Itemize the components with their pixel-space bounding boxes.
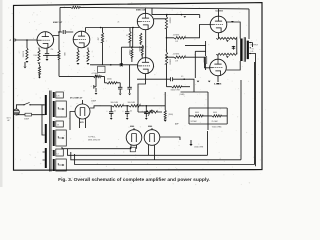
svg-text:250000: 250000 xyxy=(138,46,140,51)
svg-text:.25 MEG: .25 MEG xyxy=(173,54,180,56)
svg-text:6-6V6S: 6-6V6S xyxy=(216,11,224,13)
svg-text:6.3V: 6.3V xyxy=(57,95,60,97)
svg-text:6SN7-GT: 6SN7-GT xyxy=(53,22,63,24)
svg-text:(OHM): (OHM) xyxy=(180,94,185,96)
svg-text:6.3: 6.3 xyxy=(57,153,59,155)
svg-text:6046: 6046 xyxy=(130,125,134,128)
svg-text:0.5: 0.5 xyxy=(181,76,183,78)
svg-text:90 OHM: 90 OHM xyxy=(191,121,198,123)
svg-text:300 OHM: 300 OHM xyxy=(128,102,136,104)
svg-text:1500: 1500 xyxy=(34,55,38,57)
svg-text:1 W: 1 W xyxy=(175,60,178,62)
svg-text:(2000 OHM): (2000 OHM) xyxy=(213,127,222,129)
svg-text:5Y3, 6SN7-GT: 5Y3, 6SN7-GT xyxy=(70,98,83,100)
svg-text:40: 40 xyxy=(114,111,116,113)
svg-text:Fig. 3. Overall schematic of c: Fig. 3. Overall schematic of complete am… xyxy=(58,177,210,183)
svg-text:6046: 6046 xyxy=(148,125,152,128)
svg-text:1500: 1500 xyxy=(63,52,65,56)
svg-text:750: 750 xyxy=(51,49,54,51)
svg-text:300 OHM: 300 OHM xyxy=(111,102,119,104)
svg-text:4000: 4000 xyxy=(213,112,217,114)
svg-text:6SN7-GS: 6SN7-GS xyxy=(136,9,146,11)
svg-text:500000: 500000 xyxy=(202,57,204,62)
svg-text:40: 40 xyxy=(130,111,132,113)
svg-text:0.1: 0.1 xyxy=(126,35,128,37)
svg-text:250: 250 xyxy=(97,38,99,41)
svg-text:250000: 250000 xyxy=(128,50,130,55)
svg-text:OUTPUT: OUTPUT xyxy=(250,45,259,47)
svg-text:20000 OHM: 20000 OHM xyxy=(135,105,145,107)
svg-text:33000 OHM: 33000 OHM xyxy=(171,89,181,91)
svg-text:100000: 100000 xyxy=(168,59,170,65)
svg-text:5V: 5V xyxy=(57,124,59,126)
svg-text:6SN7, 6SN7-GT: 6SN7, 6SN7-GT xyxy=(88,139,100,141)
svg-text:.25 MEG: .25 MEG xyxy=(173,34,180,36)
svg-text:0.5 MEG: 0.5 MEG xyxy=(21,51,23,58)
svg-text:TO PIN 2,: TO PIN 2, xyxy=(88,137,96,139)
svg-text:40000: 40000 xyxy=(107,79,112,81)
svg-text:390: 390 xyxy=(73,4,76,6)
svg-text:25: 25 xyxy=(118,22,120,24)
svg-text:3 AMP: 3 AMP xyxy=(24,118,30,121)
svg-text:100000: 100000 xyxy=(168,18,170,24)
svg-text:15000 OHM: 15000 OHM xyxy=(194,146,204,148)
svg-text:5 AMP: 5 AMP xyxy=(91,100,97,103)
svg-text:25 OHM: 25 OHM xyxy=(212,121,219,123)
svg-text:4000: 4000 xyxy=(195,112,199,114)
svg-text:1 W: 1 W xyxy=(175,41,178,43)
svg-text:(2000): (2000) xyxy=(168,114,173,116)
